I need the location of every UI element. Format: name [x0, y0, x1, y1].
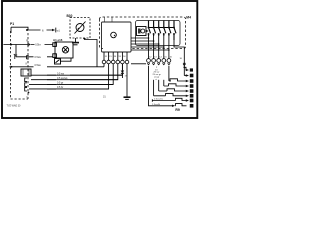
- lamp symbol (circle with X): [62, 47, 68, 53]
- link wire control unit to motor column: [131, 63, 146, 65]
- svg-text:0.5 ws: 0.5 ws: [57, 72, 65, 75]
- svg-text:0.5 sw/ws: 0.5 sw/ws: [57, 77, 68, 80]
- top stubs: [105, 17, 113, 22]
- wire to terminal 30: [174, 40, 184, 76]
- elbow wire pin53b to row1: [47, 64, 122, 76]
- svg-text:P1: P1: [10, 22, 14, 26]
- svg-text:0.5br: 0.5br: [35, 44, 41, 47]
- resistor block inside lamp unit: [55, 59, 61, 65]
- terminal circles control unit: [102, 60, 129, 64]
- lamp terminal pin upper: [53, 43, 57, 47]
- link wire in P1: [15, 45, 17, 58]
- sensor symbol circle with strike arrow: [75, 22, 86, 34]
- connector symbol pin54: [121, 64, 123, 78]
- connector mark a: [14, 54, 17, 59]
- left segments of rows into P1: [29, 75, 33, 89]
- fuse box P1 (dashed enclosure): [11, 31, 29, 99]
- svg-text:0.5ws: 0.5ws: [35, 64, 42, 67]
- svg-text:R9: R9: [175, 108, 179, 112]
- stacked wire label block: [152, 66, 166, 80]
- fan-out row B from right feed: [184, 75, 186, 77]
- connector arrow w1: [52, 29, 55, 32]
- node junction on wire 6: [26, 29, 28, 31]
- wire 0.5sw to lamp lower pin: [16, 56, 53, 58]
- wiper motor assembly M4 dashed box: [100, 17, 186, 49]
- sensor B30 dashed box: [70, 18, 90, 39]
- motor symbol in M4: [137, 27, 147, 36]
- node junction on P1 left edge: [10, 44, 12, 46]
- svg-text:0.5 gr: 0.5 gr: [57, 82, 63, 85]
- fan-out row 4: [154, 66, 187, 96]
- indicator circle inside: [111, 32, 117, 38]
- node on P1 edge: [11, 66, 13, 68]
- svg-text:A1 e16: A1 e16: [53, 38, 63, 42]
- park switch bank bus: [149, 27, 175, 29]
- connector mark b: [27, 56, 29, 60]
- wire 0.5ws long horizontal to sensor drop: [10, 66, 105, 68]
- wire 0.5br from P1 to lamp: [3, 44, 53, 46]
- ground under B30: [72, 42, 79, 44]
- sensor lead right with jog: [85, 38, 98, 67]
- fan-out row 3: [159, 66, 187, 91]
- row labels: [57, 72, 68, 89]
- connector block in P1: [21, 69, 31, 76]
- bracket contacts in P1: [25, 78, 27, 91]
- lamp terminal pin lower: [53, 54, 57, 58]
- svg-text:0.5sw: 0.5sw: [35, 56, 42, 59]
- row wire segments: [33, 75, 122, 89]
- svg-text:0.5 br: 0.5 br: [57, 86, 63, 89]
- control unit box: [102, 22, 132, 52]
- fan-out row 1: [169, 66, 187, 81]
- svg-text:M4: M4: [186, 16, 191, 20]
- border frame: [2, 1, 197, 118]
- fan-out row 2: [164, 66, 187, 86]
- wire 6 to connector w1: [11, 27, 52, 33]
- bus junction dots: [148, 27, 175, 35]
- svg-text:B30: B30: [67, 14, 73, 18]
- elbow wire pin56 to row3: [47, 64, 113, 85]
- svg-text:TVZ WAE 30: TVZ WAE 30: [7, 104, 22, 107]
- sensor lead left to ground: [75, 38, 77, 42]
- lamp A1e16 box: [55, 42, 73, 58]
- terminal circles M4: [147, 59, 171, 63]
- chevrons below M4 terminals: [147, 63, 170, 64]
- ground wire pin31b: [126, 64, 128, 97]
- pin stubs bottom of control unit: [104, 52, 127, 60]
- switch drop wires: [149, 36, 169, 59]
- node dot in P1: [28, 92, 30, 94]
- pin numbers M4: [149, 57, 183, 60]
- wire loop from block to lamp: [61, 58, 72, 61]
- fan-out row A from terminal 30: [184, 67, 186, 70]
- wire pin31 to 0.5ws row: [103, 64, 105, 67]
- internal wires control unit to switches: [131, 38, 169, 50]
- svg-text:R: R: [26, 39, 28, 43]
- right feed chevron: [183, 62, 186, 64]
- gearbox inner housing: [136, 21, 181, 46]
- elbow wire pin53 to row2: [47, 64, 118, 80]
- elbow wire pin15 to row4: [47, 64, 109, 89]
- pin numbers control unit: [105, 56, 127, 58]
- switch contacts S1..S6: [149, 21, 177, 41]
- ground symbol central: [124, 96, 131, 98]
